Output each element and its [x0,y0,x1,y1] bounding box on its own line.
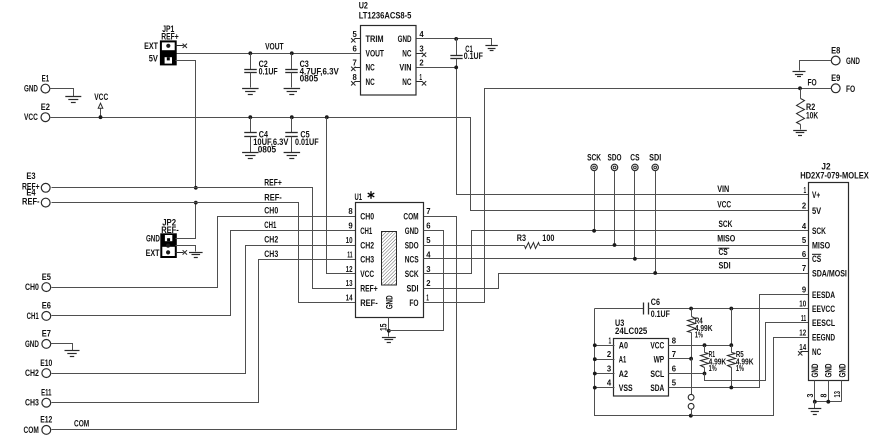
svg-text:8: 8 [348,206,353,216]
svg-text:100: 100 [542,233,554,243]
svg-text:1%: 1% [695,331,703,340]
svg-text:GND: GND [837,363,847,377]
wire U2 GND pin4 [417,39,492,46]
pin J2.14 NC stub [801,351,809,353]
ground E8 [793,71,806,73]
svg-text:VCC: VCC [360,269,374,279]
resistor R1 [704,346,706,353]
wire JP2 GND pin to REF- [176,203,196,239]
svg-text:6: 6 [353,43,358,53]
svg-text:CH2: CH2 [25,368,39,378]
svg-text:EEGND: EEGND [812,333,835,343]
svg-text:8: 8 [353,72,358,82]
svg-text:NC: NC [366,63,375,73]
svg-text:14: 14 [346,293,353,303]
svg-text:SDI: SDI [719,261,731,271]
svg-text:MISO: MISO [812,240,830,250]
wire REF+ net [52,188,356,289]
wire SCL net to EESCL [669,373,705,375]
svg-text:11: 11 [347,249,353,259]
ground C2 [242,88,259,90]
terminal E5 CH0 [42,283,51,292]
pin U2.7 NC stub [355,67,361,69]
wire EEVCC rail [649,308,809,310]
svg-text:4: 4 [419,29,424,39]
terminal E6 CH1 [42,312,51,321]
svg-text:A2: A2 [619,369,628,379]
svg-text:3: 3 [806,393,815,397]
wire CH1 net [52,231,356,316]
wire E1 to ground [50,89,74,97]
svg-text:E7: E7 [42,329,51,339]
wire WP to jumper pads [691,359,693,395]
pad circle upper [688,394,694,400]
svg-text:0.1UF: 0.1UF [464,51,483,61]
svg-text:6: 6 [802,249,807,259]
wire EEVCC to U3 VCC pin8 [731,309,733,346]
svg-text:E1: E1 [42,73,50,83]
svg-text:13: 13 [346,278,353,288]
terminal E3 REF+ [41,183,50,192]
svg-text:CH0: CH0 [360,212,374,222]
svg-text:9: 9 [802,285,807,295]
svg-text:5: 5 [802,235,807,245]
wire CH3 net [52,260,356,403]
svg-text:NCS: NCS [405,255,419,265]
svg-text:VSS: VSS [619,383,633,393]
wire VCC net [51,118,809,211]
capacitor C1 [456,39,458,56]
svg-text:8: 8 [672,335,677,345]
svg-text:REF-: REF- [360,298,378,308]
svg-text:24LC025: 24LC025 [615,326,647,336]
wire test point CS [634,171,636,259]
svg-text:E9: E9 [831,73,840,83]
wire SDA net to EESDA [669,295,809,388]
svg-text:CH0: CH0 [25,282,39,292]
ground R2 [793,130,807,132]
svg-text:REF+: REF+ [264,178,282,188]
svg-text:SCK: SCK [587,152,601,162]
svg-text:GND: GND [24,84,38,94]
svg-text:1%: 1% [736,364,744,373]
svg-text:3: 3 [607,364,612,374]
svg-text:6: 6 [426,221,431,231]
terminal E1 GND [41,84,50,93]
svg-text:GND: GND [810,363,820,377]
wire JP2 EXT no-connect stub [176,252,184,254]
wire JP1 to REF+ [176,61,196,188]
svg-text:E12: E12 [40,415,52,425]
capacitor C2 [250,54,252,70]
svg-text:SCL: SCL [650,369,664,379]
svg-text:0.01UF: 0.01UF [295,137,319,147]
svg-text:SDO: SDO [608,152,622,162]
svg-text:E6: E6 [42,301,51,311]
terminal E9 [831,84,840,93]
terminal E10 CH2 [42,369,51,378]
svg-text:9: 9 [348,221,353,231]
svg-text:3: 3 [419,43,424,53]
svg-text:CH3: CH3 [360,255,374,265]
wire test point SDO [614,171,616,246]
svg-text:SCK: SCK [405,269,419,279]
svg-text:7: 7 [353,57,358,67]
wire JP1 EXT no-connect stub [176,45,184,47]
svg-text:FO: FO [808,78,817,88]
terminal E4 REF- [41,198,50,207]
svg-text:V+: V+ [812,190,820,200]
svg-text:E3: E3 [26,171,35,181]
svg-text:0805: 0805 [258,144,277,154]
svg-text:7: 7 [426,206,431,216]
svg-text:SDA: SDA [650,383,664,393]
svg-text:COM: COM [403,212,418,222]
svg-text:6: 6 [672,364,677,374]
wire CS net [424,258,809,260]
svg-text:10K: 10K [806,110,818,120]
capacitor C5 [291,118,293,133]
resistor R5 [731,346,733,353]
svg-text:0.1UF: 0.1UF [651,309,670,319]
svg-text:FO: FO [409,298,418,308]
svg-text:VIN: VIN [717,184,729,194]
wire VIN net U2 pin2 to J2 [417,67,457,69]
terminal E11 CH3 [42,398,51,407]
svg-text:EESDA: EESDA [812,290,835,300]
svg-text:NC: NC [366,77,375,87]
pin U2.5 TRIM stub [355,38,361,40]
svg-text:E11: E11 [41,388,51,398]
svg-text:GND: GND [25,339,39,349]
svg-text:SDA/MOSI: SDA/MOSI [812,268,847,278]
ground U2 [485,45,497,47]
ground C5 [284,152,301,154]
svg-text:VCC: VCC [24,112,38,122]
svg-text:1%: 1% [709,364,717,373]
pin U1.15 GND [388,318,390,337]
svg-text:HD2X7-079-MOLEX: HD2X7-079-MOLEX [800,171,869,181]
wire COM net [52,217,457,430]
svg-text:13: 13 [833,391,842,398]
svg-text:C6: C6 [651,297,660,307]
svg-text:SCK: SCK [812,226,826,236]
svg-text:VCC: VCC [94,92,108,102]
svg-text:15: 15 [379,324,389,332]
svg-text:E2: E2 [41,102,50,112]
wire U3 pin8 line [669,345,732,347]
svg-text:WP: WP [654,355,665,365]
svg-text:SDI: SDI [649,152,661,162]
pad circle lower [688,403,694,409]
svg-text:0805: 0805 [300,74,319,84]
wire VOUT net [176,53,361,55]
svg-text:2: 2 [607,349,612,359]
svg-text:GND: GND [405,226,419,236]
svg-text:REF+: REF+ [360,284,378,294]
svg-text:12: 12 [346,264,353,274]
svg-text:REF-: REF- [264,192,282,202]
svg-text:E5: E5 [42,272,51,282]
terminal E12 COM [42,426,51,435]
wire U3 ground bus [595,309,809,416]
svg-text:MISO: MISO [717,234,735,244]
wire test point SCK [594,171,596,231]
svg-text:REF-: REF- [22,197,40,207]
svg-text:CH2: CH2 [264,234,278,244]
svg-text:CS: CS [630,152,639,162]
wire REF- net [52,203,356,303]
svg-text:5V: 5V [812,206,822,216]
svg-text:A0: A0 [619,341,628,351]
svg-text:GND: GND [824,363,834,377]
svg-text:VOUT: VOUT [366,49,385,59]
svg-text:U1: U1 [355,192,363,202]
wire SDI net [424,274,809,289]
svg-text:5: 5 [353,29,358,39]
pin U2.3 NC stub [417,53,423,55]
svg-text:COM: COM [74,418,89,428]
svg-text:E10: E10 [40,358,52,368]
resistor R3 [525,243,540,249]
svg-text:CH1: CH1 [360,226,372,236]
svg-text:3: 3 [426,264,431,274]
svg-text:VIN: VIN [399,63,411,73]
svg-text:U2: U2 [359,1,368,11]
wire E8 to ground [800,61,832,71]
svg-text:GND: GND [846,56,860,66]
svg-text:5V: 5V [149,53,159,63]
svg-text:EEVCC: EEVCC [812,304,835,314]
svg-text:2: 2 [419,57,424,67]
terminal E8 [831,56,840,65]
wire E7 to ground [51,344,73,351]
svg-text:EXT: EXT [144,41,158,51]
pin U2.8 NC stub [355,81,361,83]
svg-text:CH1: CH1 [264,220,276,230]
svg-text:SCK: SCK [719,219,733,229]
svg-text:2: 2 [426,278,431,288]
terminal E2 VCC [41,113,50,122]
svg-text:COM: COM [24,425,39,435]
capacitor C6 [595,308,644,310]
svg-text:CH1: CH1 [27,311,39,321]
svg-text:E8: E8 [831,45,840,55]
resistor R2 [800,89,802,99]
svg-text:1: 1 [609,335,612,345]
svg-text:0.1UF: 0.1UF [259,66,278,76]
wire U1 GND pin6 to pin15 [389,231,444,331]
wire SDO/MISO net with R3 [424,245,525,247]
ground JP2 [189,252,203,254]
wire test point SDI [655,171,657,274]
svg-text:VOUT: VOUT [265,42,284,52]
wire FO net [424,89,832,303]
svg-text:11: 11 [801,313,807,323]
svg-text:1: 1 [804,185,807,195]
svg-text:2: 2 [802,201,807,211]
wire SCK net [424,231,809,274]
svg-text:SDO: SDO [405,240,419,250]
wire CH2 net [52,246,356,374]
capacitor C4 [250,118,252,133]
wire VCC to U1 pin12 [327,118,356,274]
terminal E7 GND [42,340,51,349]
svg-text:NC: NC [402,49,411,59]
ground U1 pin15 [382,337,396,339]
svg-text:CS: CS [812,254,821,264]
svg-text:10: 10 [346,235,353,245]
svg-text:4: 4 [607,378,612,388]
svg-text:R3: R3 [517,233,526,243]
svg-text:5: 5 [426,235,431,245]
svg-text:12: 12 [799,327,806,337]
svg-text:GND: GND [398,34,412,44]
resistor R4 [691,309,693,317]
svg-text:CH2: CH2 [360,240,374,250]
svg-text:8: 8 [820,393,829,397]
pin U2.1 NC stub [417,81,423,83]
svg-text:NC: NC [402,77,411,87]
svg-text:4: 4 [802,221,807,231]
wire CH0 net [52,217,356,288]
wire U3 WP pin7 [669,358,692,360]
wire JP2 to ground [176,246,196,252]
ground E7 [65,350,80,352]
svg-text:5: 5 [672,378,677,388]
svg-text:LT1236ACS8-5: LT1236ACS8-5 [359,11,412,21]
svg-text:REF+: REF+ [161,32,179,42]
svg-text:CH0: CH0 [264,206,278,216]
svg-text:7: 7 [672,349,677,359]
capacitor C3 [291,54,293,70]
svg-text:7: 7 [802,263,807,273]
svg-text:SDI: SDI [406,284,418,294]
svg-text:VCC: VCC [717,200,731,210]
svg-text:1: 1 [419,72,422,82]
svg-text:CH3: CH3 [25,398,39,408]
svg-text:GND: GND [385,295,395,309]
ground J2 [808,408,821,410]
svg-text:A1: A1 [619,355,627,365]
svg-text:EXT: EXT [146,248,160,258]
ground E1 [65,96,81,98]
svg-text:VCC: VCC [650,341,664,351]
svg-text:FO: FO [846,84,855,94]
ground C4 [242,152,259,154]
svg-text:CH3: CH3 [264,249,278,259]
ground C3 [284,88,301,90]
svg-text:1: 1 [426,293,429,303]
svg-text:NC: NC [812,347,821,357]
svg-text:10: 10 [799,299,806,309]
svg-text:GND: GND [146,234,160,244]
svg-text:EESCL: EESCL [812,318,835,328]
svg-text:4: 4 [426,249,431,259]
svg-text:14: 14 [799,342,806,352]
svg-text:TRIM: TRIM [366,34,384,44]
